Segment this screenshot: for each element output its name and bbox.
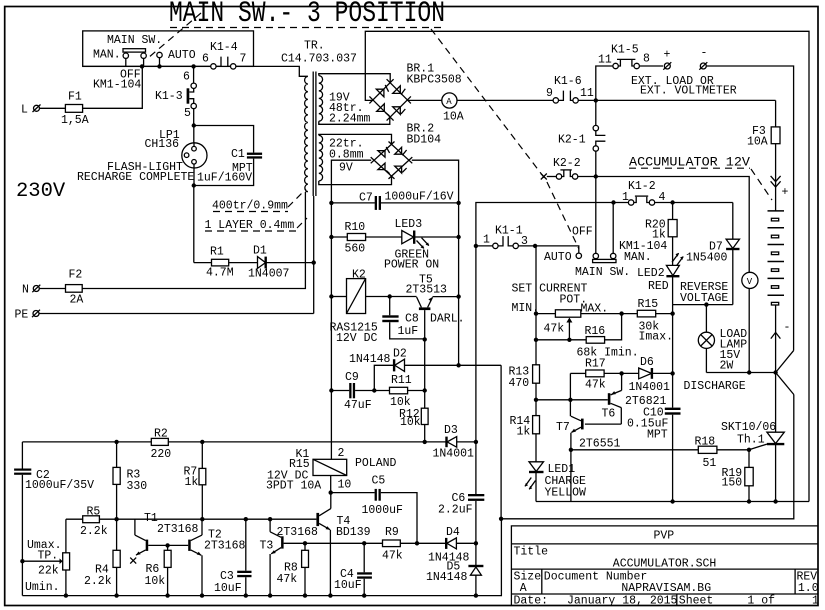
svg-text:47k: 47k — [382, 550, 403, 563]
svg-text:K2: K2 — [352, 269, 366, 282]
capacitor C3 10uF — [214, 519, 252, 595]
svg-text:R9: R9 — [385, 526, 399, 539]
svg-text:MAIN SW.: MAIN SW. — [575, 266, 630, 279]
transistor T7 2T6551 — [571, 416, 621, 501]
svg-text:47uF: 47uF — [344, 399, 372, 412]
resistor R19 150 — [722, 450, 754, 502]
wire D2 node to sense line — [500, 365, 502, 519]
wire to voltmeter — [596, 177, 749, 273]
svg-text:K1-4: K1-4 — [210, 41, 238, 54]
resistor R7 1k — [184, 442, 206, 519]
resistor R9 47k — [382, 526, 417, 563]
svg-text:K1-5: K1-5 — [611, 44, 639, 57]
wire current-set rail — [535, 246, 537, 365]
wire base node row — [536, 399, 608, 401]
svg-text:D3: D3 — [444, 424, 458, 437]
svg-text:LED3: LED3 — [395, 218, 423, 231]
svg-text:6: 6 — [202, 53, 209, 66]
svg-text:Date:: Date: — [514, 595, 549, 608]
svg-text:MPT: MPT — [647, 429, 668, 442]
wire BR.2 minus to left rail — [331, 160, 371, 459]
node dot R20 top — [670, 200, 674, 204]
svg-text:2.2uF: 2.2uF — [438, 504, 473, 517]
resistor R15 30k Imax. — [637, 298, 673, 344]
svg-text:EXT. VOLTMETER: EXT. VOLTMETER — [640, 85, 737, 98]
node dots R10 row — [329, 235, 461, 239]
relay contact K1-3 (NC pushbutton) — [187, 66, 197, 125]
svg-text:1,5A: 1,5A — [61, 114, 89, 127]
svg-text:C5: C5 — [372, 475, 386, 488]
svg-text:C1: C1 — [231, 148, 245, 161]
svg-text:Sheet: Sheet — [679, 595, 714, 608]
transformer secondary 1 19V 48tr — [319, 76, 323, 122]
dashed leader to right main switch — [431, 29, 579, 249]
resistor R14 1k — [510, 415, 540, 462]
wire T3 base row to R9 — [284, 542, 383, 544]
svg-text:1N4007: 1N4007 — [248, 268, 289, 281]
terminal N — [22, 284, 40, 297]
svg-text:2.24mm: 2.24mm — [329, 112, 371, 125]
svg-text:POLAND: POLAND — [355, 457, 397, 470]
svg-text:1uF: 1uF — [398, 325, 419, 338]
svg-text:NAPRAVISAM.BG: NAPRAVISAM.BG — [621, 582, 711, 595]
resistor R1 4.7M — [194, 246, 258, 280]
svg-text:Th.1: Th.1 — [737, 434, 765, 447]
capacitor C1 MPT 1uF/160V — [194, 126, 262, 186]
svg-text:AUTO: AUTO — [544, 251, 572, 264]
resistor R3 330 — [113, 442, 147, 550]
svg-text:VOLTAGE: VOLTAGE — [680, 292, 728, 305]
svg-text:10uF: 10uF — [214, 582, 242, 595]
transformer secondary 2 9V 22tr — [319, 135, 323, 181]
svg-text:4.7M: 4.7M — [206, 267, 234, 280]
node dot C8 top — [388, 294, 392, 298]
svg-text:T6: T6 — [602, 408, 616, 421]
svg-text:3: 3 — [521, 235, 528, 248]
svg-text:OFF: OFF — [572, 226, 593, 239]
svg-text:RED: RED — [648, 280, 669, 293]
meter A 10A — [442, 93, 464, 124]
node junction dots on bus — [140, 64, 196, 68]
svg-text:C8: C8 — [405, 313, 419, 326]
svg-text:T1: T1 — [144, 512, 158, 525]
wire primary bottom hook — [305, 191, 307, 193]
svg-text:+: + — [664, 49, 671, 62]
svg-text:R15: R15 — [638, 298, 659, 311]
svg-text:PVP: PVP — [654, 530, 675, 543]
svg-text:Title: Title — [514, 546, 549, 559]
svg-text:RECHARGE COMPLETE: RECHARGE COMPLETE — [77, 171, 194, 184]
svg-text:10: 10 — [338, 479, 352, 492]
svg-text:1N4148: 1N4148 — [349, 353, 391, 366]
node dot R18 tap — [569, 448, 573, 452]
switch MAIN SW KM1-104 (lower) — [535, 203, 616, 263]
node dots K2 row — [329, 294, 461, 299]
diode D7 1N5400 — [726, 203, 739, 305]
relay contact K2-2 (closed, with x) — [541, 170, 596, 180]
resistor R12 10k — [399, 391, 428, 442]
wire secondary2 top to BR.2 — [319, 134, 392, 145]
fuse F3 10A — [747, 100, 780, 210]
svg-text:BD104: BD104 — [407, 134, 442, 147]
dashed leader to left main switch — [148, 13, 201, 58]
svg-text:A: A — [446, 97, 452, 107]
relay K2 RAS1215 coil — [330, 269, 417, 346]
svg-text:BD139: BD139 — [336, 526, 371, 539]
svg-text:1N5400: 1N5400 — [686, 252, 728, 265]
main switch box — [83, 31, 254, 67]
svg-text:C9: C9 — [345, 371, 359, 384]
svg-text:10A: 10A — [443, 111, 464, 124]
svg-text:1.0: 1.0 — [798, 582, 819, 595]
svg-text:7: 7 — [240, 53, 247, 66]
node dot R16 left rail — [534, 338, 538, 342]
transformer core — [313, 72, 316, 197]
svg-text:K1-1: K1-1 — [495, 225, 523, 238]
wire analog ground bus — [22, 519, 501, 596]
wire BR.1 plus to ammeter — [408, 99, 442, 101]
wire T5 base down — [424, 339, 426, 390]
transistor T5 2T3513 DARL. — [417, 297, 459, 340]
node dot LP1 bottom — [192, 183, 196, 187]
relay contact K1-4 — [211, 64, 236, 69]
svg-text:1: 1 — [812, 595, 819, 608]
capacitor C8 1uF — [382, 297, 424, 339]
node dot lamp tap — [704, 302, 708, 306]
svg-text:A: A — [520, 582, 527, 595]
node dot K1-1 left — [474, 244, 478, 248]
svg-text:560: 560 — [345, 243, 366, 256]
svg-text:K1-6: K1-6 — [554, 75, 582, 88]
resistor R18 51 — [571, 436, 749, 471]
svg-text:R17: R17 — [585, 358, 606, 371]
diode D1 1N4007 — [248, 245, 314, 281]
terminal PE — [15, 196, 314, 322]
svg-text:MAIN SW.: MAIN SW. — [107, 34, 162, 47]
bridge rectifier BR.1 KBPC3508 — [369, 79, 411, 120]
svg-text:DISCHARGE: DISCHARGE — [684, 380, 746, 393]
svg-text:N: N — [22, 284, 29, 297]
svg-text:2A: 2A — [70, 294, 84, 307]
svg-text:TP.: TP. — [38, 550, 59, 563]
svg-text:D2: D2 — [393, 348, 407, 361]
svg-text:KBPC3508: KBPC3508 — [407, 74, 462, 87]
svg-text:8: 8 — [643, 53, 650, 66]
svg-text:YELLOW: YELLOW — [545, 487, 587, 500]
capacitor C6 2.2uF — [438, 442, 484, 544]
svg-text:+: + — [782, 186, 789, 199]
resistor R17 47k — [570, 358, 621, 392]
wire reverse-voltage bottom — [673, 304, 733, 306]
node dot C5/D4 — [415, 541, 419, 545]
svg-text:KM1-104: KM1-104 — [93, 79, 141, 92]
svg-text:POWER ON: POWER ON — [384, 259, 439, 272]
node dot R15 right — [670, 311, 674, 315]
resistor R13 470 — [509, 365, 540, 416]
resistor R16 68k Imin. — [536, 314, 639, 360]
node dot wiper bottom — [567, 338, 571, 342]
label 400tr/0.9mm with dashed leader — [212, 189, 306, 213]
capacitor C7 1000uF/16V — [331, 191, 458, 210]
wire y=519 row — [66, 518, 317, 520]
svg-text:ACCUMULATOR.SCH: ACCUMULATOR.SCH — [613, 558, 717, 571]
node dot R8 top — [303, 541, 307, 545]
svg-text:2T3168: 2T3168 — [277, 526, 319, 539]
svg-text:ACCUMULATOR 12V: ACCUMULATOR 12V — [629, 156, 751, 170]
svg-text:3PDT 10A: 3PDT 10A — [266, 480, 321, 493]
meter V voltmeter — [742, 272, 758, 372]
svg-text:R5: R5 — [87, 506, 101, 519]
node dot C4 top — [362, 541, 366, 545]
svg-text:D4: D4 — [446, 526, 460, 539]
wire secondary1 top to BR.1 — [319, 74, 390, 83]
svg-text:K1-2: K1-2 — [628, 180, 656, 193]
svg-text:1000uF: 1000uF — [362, 504, 404, 517]
svg-text:6: 6 — [183, 71, 190, 84]
svg-text:11: 11 — [598, 54, 612, 67]
relay contact K1-5 (closed) — [613, 59, 663, 68]
node dot pot right — [619, 311, 623, 315]
wire K2 node down to OFF contact — [595, 177, 597, 203]
svg-text:January 18, 2015: January 18, 2015 — [567, 595, 678, 608]
relay contact K1-6 — [553, 91, 578, 104]
node dot pot left — [534, 311, 538, 315]
svg-text:1000uF/16V: 1000uF/16V — [385, 191, 454, 204]
svg-text:DARL.: DARL. — [430, 313, 465, 326]
wire K1-1 riser down to D3 — [475, 246, 477, 442]
node dots C9 row — [329, 388, 427, 392]
wire ext minus down right side — [707, 66, 794, 350]
LED1 CHARGE YELLOW — [525, 462, 544, 502]
svg-text:2T6821: 2T6821 — [625, 395, 667, 408]
svg-text:47k: 47k — [544, 323, 565, 336]
LED3 GREEN POWER ON — [402, 231, 459, 249]
wire battery minus diagonals to right rail — [501, 350, 793, 519]
battery ACCUMULATOR 12V — [768, 211, 791, 373]
svg-text:R1: R1 — [210, 246, 224, 259]
diode D5 1N4148 — [426, 543, 483, 595]
svg-text:1: 1 — [483, 234, 490, 247]
terminal L — [21, 104, 41, 117]
node dots on ground bus — [670, 499, 777, 503]
capacitor C9 47uF — [331, 371, 389, 412]
svg-text:T3: T3 — [260, 540, 274, 553]
svg-text:R16: R16 — [585, 325, 606, 338]
resistor R10 560 — [331, 221, 401, 256]
svg-text:F2: F2 — [69, 269, 83, 282]
title block — [511, 526, 818, 606]
relay contact K1-1 — [493, 236, 535, 248]
svg-text:MAN.: MAN. — [624, 251, 652, 264]
diode D3 1N4001 — [433, 424, 476, 461]
svg-text:R18: R18 — [695, 436, 716, 449]
svg-text:1k: 1k — [652, 229, 666, 242]
svg-text:R2: R2 — [154, 428, 168, 441]
svg-text:400tr/0.9mm: 400tr/0.9mm — [212, 200, 288, 213]
node dot R6 top — [165, 543, 169, 547]
diode D2 1N4148 — [349, 348, 501, 391]
svg-text:10k: 10k — [400, 416, 421, 429]
node dot K2-2 junction — [594, 174, 598, 178]
svg-text:TR.: TR. — [304, 40, 325, 53]
svg-text:22k: 22k — [38, 565, 59, 578]
svg-text:2T3168: 2T3168 — [204, 540, 246, 553]
label ACCUMULATOR 12V with dashed leader — [629, 156, 772, 201]
svg-text:1uF/160V: 1uF/160V — [197, 172, 252, 185]
svg-text:5: 5 — [184, 107, 191, 120]
node dot D6 cathode — [670, 371, 674, 375]
svg-text:1k: 1k — [517, 426, 531, 439]
relay contact K2-1 — [593, 100, 605, 176]
switch MAIN SW MAN-OFF-AUTO (upper) — [123, 49, 162, 67]
transistor T3 2T3168 — [270, 519, 284, 595]
svg-text:9V: 9V — [339, 162, 353, 175]
svg-text:R10: R10 — [345, 221, 366, 234]
svg-text:47k: 47k — [277, 573, 298, 586]
svg-text:2T3513: 2T3513 — [406, 284, 448, 297]
node dot sense corner — [499, 517, 503, 521]
svg-text:1N4148: 1N4148 — [426, 571, 468, 584]
svg-text:51: 51 — [703, 457, 717, 470]
svg-text:T7: T7 — [556, 421, 570, 434]
svg-text:D6: D6 — [640, 356, 654, 369]
svg-text:Umin.: Umin. — [25, 581, 60, 594]
svg-text:-: - — [784, 321, 791, 334]
svg-text:C14.703.037: C14.703.037 — [281, 53, 357, 66]
node dots C7 row — [329, 201, 461, 205]
svg-text:47k: 47k — [585, 379, 606, 392]
wire riser to K1-5 — [596, 66, 613, 100]
transistor T1 2T3168 — [130, 519, 148, 563]
svg-text:1 of: 1 of — [747, 595, 775, 608]
relay K1 R15 12V DC 3PDT 10A coil — [266, 447, 397, 493]
wire K1-1 row — [476, 245, 493, 247]
wire T1/T2 base row — [148, 544, 188, 546]
svg-text:Imax.: Imax. — [639, 331, 674, 344]
svg-text:12V DC: 12V DC — [336, 332, 378, 345]
LED2 RED — [666, 253, 683, 305]
wire x=673 vertical (LED2 node down to ground bus) — [672, 305, 674, 502]
svg-text:K1-3: K1-3 — [155, 90, 183, 103]
node dot AUTO wire / rail top — [533, 244, 537, 248]
capacitor C10 0.15uF MPT — [627, 407, 681, 442]
svg-text:220: 220 — [151, 448, 172, 461]
node dot OFF riser — [611, 200, 615, 204]
node dot T6 base node — [568, 398, 572, 402]
svg-text:330: 330 — [127, 480, 148, 493]
svg-text:1N4001: 1N4001 — [433, 448, 475, 461]
svg-text:10A: 10A — [747, 136, 768, 149]
svg-text:K2-2: K2-2 — [553, 157, 581, 170]
svg-text:Size: Size — [514, 571, 542, 584]
node dots y=519 — [114, 517, 272, 521]
svg-text:1N4001: 1N4001 — [629, 381, 671, 394]
wire BR.1 minus loop to top bus and right side down — [365, 31, 809, 501]
node dot battery minus — [773, 370, 777, 374]
resistor R2 220 — [151, 428, 172, 462]
svg-text:9: 9 — [546, 87, 553, 100]
wire 230V bus y=66 — [83, 57, 308, 77]
resistor R11 10k — [390, 374, 425, 409]
wire K1-6 to F3 — [578, 99, 775, 101]
node dots on y=442 rail — [114, 440, 478, 444]
resistor R6 10k — [145, 545, 172, 595]
svg-text:AUTO: AUTO — [168, 49, 196, 62]
svg-text:MAN.: MAN. — [93, 49, 121, 62]
svg-text:F1: F1 — [68, 91, 82, 104]
svg-text:1000uF/35V: 1000uF/35V — [25, 479, 94, 492]
node dot voltmeter bottom — [747, 370, 751, 374]
svg-text:PE: PE — [15, 309, 29, 322]
wire secondary2 bottom to BR.2 — [319, 176, 392, 185]
node dot D2 right rail — [456, 363, 460, 367]
node dot K1-6/K1-5/K2-1 — [594, 98, 598, 102]
svg-text:1k: 1k — [185, 476, 199, 489]
node dot base wire rail — [534, 398, 538, 402]
wire K1-1 riser top to K1-2 row — [476, 203, 629, 246]
wire BR.2 plus to right rail — [412, 160, 459, 365]
resistor R20 1k — [645, 203, 677, 266]
svg-text:1: 1 — [622, 191, 629, 204]
svg-text:10k: 10k — [145, 575, 166, 588]
label 1 LAYER 0.4mm with dashed leader — [205, 218, 308, 232]
lamp LOAD LAMP 15V 2W — [698, 305, 714, 373]
svg-text:4: 4 — [659, 191, 666, 204]
thyristor Th.1 SKT10/06 — [767, 373, 784, 502]
svg-text:2W: 2W — [720, 360, 734, 373]
diode D4 1N4148 — [417, 526, 476, 565]
svg-text:2T6551: 2T6551 — [579, 438, 621, 451]
wire LP1 to R1 — [193, 186, 195, 263]
fuse F1 1,5A — [40, 66, 143, 127]
svg-text:1 LAYER 0.4mm: 1 LAYER 0.4mm — [205, 219, 295, 232]
node dot wiper on C2 line — [20, 559, 24, 563]
terminal ext minus — [699, 47, 707, 70]
svg-text:CH136: CH136 — [145, 138, 180, 151]
svg-text:11: 11 — [580, 87, 594, 100]
transistor T6 2T6821 — [608, 373, 622, 424]
svg-text:LED2: LED2 — [637, 267, 665, 280]
transistor T2 2T3168 — [188, 519, 202, 595]
wire lamp bottom to battery minus — [706, 372, 775, 374]
wire ammeter to K1-6 — [457, 99, 553, 101]
svg-text:C7: C7 — [359, 192, 373, 205]
potentiometer SET CURRENT 47k — [536, 310, 637, 340]
wire ground bus y=501.5 — [536, 501, 809, 503]
svg-text:R11: R11 — [391, 374, 412, 387]
svg-text:470: 470 — [509, 377, 530, 390]
node dot K1 pin10 / C5 — [329, 490, 333, 494]
svg-text:230V: 230V — [16, 180, 66, 203]
wire long rail y=442 — [22, 441, 446, 443]
lamp LP1 CH136 — [182, 126, 207, 186]
transistor T4 BD139 — [316, 492, 330, 595]
svg-text:-: - — [701, 47, 708, 60]
svg-text:L: L — [21, 104, 28, 117]
arrow to battery plus — [771, 176, 781, 187]
wire thyristor gate — [749, 444, 767, 450]
svg-text:K2-1: K2-1 — [558, 134, 586, 147]
svg-text:V: V — [747, 277, 753, 287]
svg-text:SKT10/06: SKT10/06 — [721, 421, 776, 434]
node dots analog ground bus — [64, 593, 478, 597]
capacitor C5 1000uF — [331, 475, 417, 544]
svg-text:MAIN SW.- 3 POSITION: MAIN SW.- 3 POSITION — [169, 0, 445, 30]
resistor R8 47k — [277, 543, 309, 595]
terminal ext plus — [663, 49, 671, 70]
transformer TR. C14.703.037 primary winding 400tr — [305, 76, 308, 191]
relay contact K1-2 (closed) — [628, 196, 732, 205]
